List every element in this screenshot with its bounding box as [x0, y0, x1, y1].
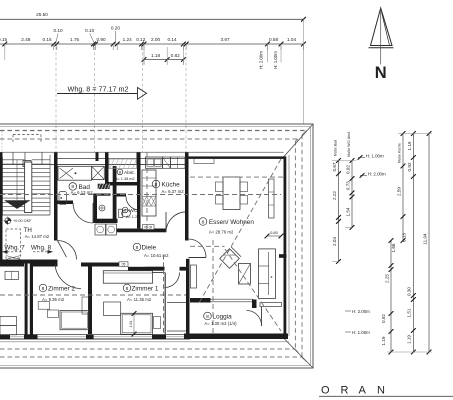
svg-text:0.30: 0.30	[407, 287, 412, 296]
side table	[239, 264, 251, 285]
svg-text:A= 9.35 m2: A= 9.35 m2	[42, 297, 65, 302]
svg-text:0.16: 0.16	[42, 37, 52, 42]
svg-text:8: 8	[155, 182, 158, 188]
svg-text:0.67: 0.67	[332, 162, 337, 171]
Loggia label	[204, 312, 212, 320]
chair left bottom	[216, 196, 224, 205]
wall kitchen/essen vertical	[185, 165, 189, 241]
bad toilet	[59, 192, 67, 205]
wall bar below bath	[93, 194, 110, 196]
svg-text:1.18: 1.18	[151, 53, 161, 58]
svg-text:1.19: 1.19	[406, 335, 411, 344]
dashed 2m height line essen	[190, 176, 283, 178]
svg-text:0.80: 0.80	[270, 230, 279, 235]
top wall small post	[96, 152, 99, 161]
svg-text:0.14: 0.14	[167, 37, 177, 42]
svg-text:1.54: 1.54	[346, 207, 351, 216]
kitchen stove	[163, 157, 171, 168]
Abst label	[117, 169, 123, 175]
svg-text:1.19: 1.19	[381, 336, 386, 345]
wall cabinet	[191, 265, 197, 288]
Abst shelf hatch	[109, 159, 137, 169]
Abst window	[109, 158, 137, 160]
top wall pier	[54, 152, 58, 165]
roof dashed line bottom B	[0, 348, 295, 350]
eaves line right	[288, 155, 290, 336]
kitchen bottom wall	[141, 229, 167, 233]
main top dimension chain	[0, 43, 304, 45]
Zimmer2 left wall	[30, 263, 33, 335]
Zimmer2 shelf	[82, 297, 89, 314]
svg-text:3.97: 3.97	[220, 37, 230, 42]
Diele label	[133, 243, 141, 251]
WC left wall	[93, 196, 97, 223]
svg-text:R: R	[341, 385, 349, 397]
svg-text:25.50: 25.50	[36, 12, 48, 17]
Essen/Wohnen label	[199, 218, 207, 226]
kitchen sink counter	[145, 157, 162, 168]
floor drain symbol	[99, 205, 105, 211]
svg-text:1.24: 1.24	[123, 37, 133, 42]
Zimmer2 label	[39, 284, 47, 292]
Zimmer2 door arc	[55, 263, 81, 289]
svg-text:0.92: 0.92	[381, 314, 386, 323]
dashed vertical zimmer1	[163, 255, 165, 333]
Bad label	[69, 183, 77, 191]
svg-text:A= 11.35 m2: A= 11.35 m2	[127, 297, 152, 302]
svg-text:0.92: 0.92	[346, 165, 351, 174]
corner dashed connectors top-right	[302, 131, 307, 135]
loggia door leaf	[260, 303, 282, 307]
svg-text:A= 14.87 m2: A= 14.87 m2	[25, 234, 50, 239]
loggia window	[211, 298, 254, 300]
roof outline outer	[0, 124, 313, 368]
staircase treads	[3, 159, 25, 161]
TH right wall stub	[54, 260, 58, 267]
Diele bottom wall segment B2	[128, 267, 165, 271]
svg-text:Whg. 8 = 77.17 m2: Whg. 8 = 77.17 m2	[68, 85, 129, 94]
Zimmer1 door leaf	[152, 272, 165, 274]
kitchen left wall	[137, 164, 141, 228]
left edge dotted extension	[1, 131, 3, 152]
shower square	[92, 166, 105, 179]
neighbour box B	[0, 326, 16, 335]
Zimmer1 desk	[104, 302, 121, 315]
bottom wall loggia slab	[184, 334, 288, 340]
svg-text:1.04: 1.04	[287, 37, 297, 42]
kitchen tall unit	[171, 157, 186, 168]
sub chain 1.18 / 0.82	[144, 59, 183, 61]
wall WC/Abst vertical	[113, 166, 117, 219]
svg-text:0.12: 0.12	[136, 37, 146, 42]
svg-text:TH: TH	[24, 227, 32, 234]
top wall pier	[137, 152, 141, 165]
1.64 mini dimension	[133, 314, 135, 335]
WC door arc	[126, 197, 140, 211]
WB marker box	[143, 225, 155, 230]
Zimmer1 door wall piece	[145, 267, 165, 271]
kitchen door leaf	[165, 212, 167, 232]
dryer	[106, 224, 117, 235]
eaves line bottom	[0, 341, 289, 343]
chain total 11.04	[428, 134, 430, 353]
neighbour box A	[0, 316, 16, 325]
svg-text:0.82: 0.82	[171, 53, 181, 58]
svg-text:2.48: 2.48	[21, 37, 31, 42]
svg-text:0.10: 0.10	[53, 28, 63, 33]
Zimmer1 bed	[121, 313, 153, 334]
svg-text:0.10: 0.10	[85, 28, 95, 33]
roof mitre corner top-right	[284, 124, 313, 157]
dishwasher hatch cell	[142, 197, 147, 207]
Zimmer1 label	[123, 284, 131, 292]
Bad window	[58, 158, 106, 160]
niche lines	[167, 302, 186, 304]
bottom wall pier at party wall	[24, 335, 38, 340]
stair side lines	[49, 155, 51, 215]
dashed vertical essen	[212, 240, 214, 333]
bottom wall pier z2/z1	[86, 335, 94, 340]
svg-text:2.22: 2.22	[332, 191, 337, 200]
svg-text:H: 1.00m: H: 1.00m	[273, 51, 278, 69]
Zimmer1 wardrobe	[103, 271, 152, 284]
TH left wall	[0, 152, 3, 263]
dashed diagonal 2	[225, 249, 281, 331]
Zimmer2 left neighbour wall	[25, 263, 28, 335]
svg-text:Zimmer 2: Zimmer 2	[48, 285, 75, 292]
svg-text:Küche: Küche	[162, 181, 181, 188]
loggia door arc	[247, 311, 262, 326]
roof dashed line top B	[0, 138, 298, 140]
svg-text:0.20: 0.20	[111, 26, 121, 31]
Diele-Essen door leaf	[189, 257, 207, 259]
kitchen window band	[141, 158, 186, 160]
kitchen left counter	[142, 170, 156, 216]
wall essen/loggia left vertical	[186, 259, 190, 334]
TV lowboard	[269, 179, 275, 218]
Diele bottom wall segment B	[81, 263, 121, 267]
svg-text:Essen/ Wohnen: Essen/ Wohnen	[209, 219, 254, 226]
svg-text:N: N	[375, 64, 387, 82]
washing machine	[95, 224, 106, 235]
Zimmer2 wall box	[38, 302, 49, 310]
svg-text:1.66: 1.66	[391, 243, 396, 252]
dashed line 1m height horizontal	[0, 194, 281, 196]
svg-text:Abst.: Abst.	[124, 170, 135, 176]
loggia top wall right pier	[252, 300, 257, 309]
chair right bottom	[240, 196, 248, 205]
svg-text:WC: WC	[129, 208, 138, 214]
roof mitre corner bottom-right	[284, 338, 313, 368]
dormer dashed outline	[12, 135, 14, 143]
Essen top wall	[189, 156, 284, 159]
svg-text:A= 1.30 m2 (1/4): A= 1.30 m2 (1/4)	[204, 321, 237, 326]
svg-text:0.15: 0.15	[0, 37, 7, 42]
Diele bottom wall segment C	[180, 267, 190, 271]
svg-text:8: 8	[202, 219, 205, 225]
svg-text:8: 8	[136, 245, 139, 251]
svg-text:1.64: 1.64	[129, 321, 133, 328]
chair right top	[240, 182, 248, 192]
chain Masse Bad	[338, 161, 340, 262]
svg-text:1.19: 1.19	[407, 141, 412, 150]
dashed diagonal 1	[199, 159, 281, 303]
stair centre stringer	[25, 162, 32, 213]
bottom wall pier left	[0, 335, 10, 340]
svg-text:8: 8	[206, 314, 209, 320]
svg-text:2.59: 2.59	[396, 187, 401, 196]
right exterior wall	[284, 156, 287, 338]
neighbour shelf	[5, 271, 18, 279]
svg-text:0.92: 0.92	[407, 162, 412, 171]
loggia top wall left	[190, 298, 211, 303]
chain lower right	[390, 241, 392, 353]
svg-text:2.25: 2.25	[384, 274, 389, 283]
svg-text:6.13: 6.13	[401, 233, 406, 242]
title underline	[319, 395, 453, 397]
svg-text:A= 1.38 m2: A= 1.38 m2	[115, 177, 135, 181]
WC label	[122, 207, 128, 213]
armchair rotated	[220, 247, 241, 268]
lobby bar wall	[93, 219, 117, 223]
Zimmer1 door arc	[165, 273, 180, 288]
WC toilet	[119, 209, 123, 217]
sideboard top	[194, 159, 214, 164]
top wall pier	[105, 152, 109, 165]
couch	[259, 249, 276, 299]
dashed line horizontal bottom rooms	[0, 294, 186, 296]
Zimmer1 right wall thin	[164, 273, 166, 335]
stair landing line	[3, 214, 51, 216]
loggia door leaf open	[261, 307, 263, 326]
top wall TH window band	[0, 163, 54, 165]
Zimmer2 bed	[60, 311, 89, 330]
chain Masse Kueche	[402, 134, 404, 241]
eaves line top	[0, 151, 284, 153]
roof dashed line right A	[301, 135, 303, 358]
Abst bottom wall	[105, 182, 141, 186]
stair direction arrow	[5, 201, 30, 209]
svg-text:A: A	[359, 385, 367, 397]
svg-text:2.00: 2.00	[151, 37, 161, 42]
svg-text:Maße WC/ Abst.: Maße WC/ Abst.	[347, 131, 351, 157]
Diele-Essen door arc	[189, 239, 206, 258]
svg-text:8: 8	[42, 286, 45, 292]
svg-text:O: O	[321, 385, 330, 397]
WC top wall	[117, 194, 127, 197]
WC bottom wall	[117, 229, 141, 233]
wall stub right	[279, 254, 287, 258]
kitchen door arc	[166, 212, 187, 233]
svg-text:H: 2.00m: H: 2.00m	[352, 309, 370, 314]
bath shelf hatched	[98, 184, 110, 189]
dimension line 25.50	[0, 18, 304, 20]
level marker +0.00 OKF	[5, 218, 11, 224]
svg-text:05: 05	[122, 263, 126, 267]
svg-text:Maße Bad: Maße Bad	[334, 140, 338, 156]
svg-text:A= 6.37 m2: A= 6.37 m2	[162, 189, 185, 194]
wall Zimmer2/Zimmer1	[88, 267, 92, 335]
svg-text:A= 28.76 m2: A= 28.76 m2	[209, 230, 234, 235]
svg-text:H: 1.00m: H: 1.00m	[366, 154, 384, 159]
svg-text:0.90: 0.90	[96, 37, 106, 42]
0.80 niche dimension	[267, 235, 281, 237]
shaft dashed rectangle	[6, 229, 21, 258]
Zimmer1 nightstand	[154, 317, 161, 329]
svg-text:H: 1.00m: H: 1.00m	[352, 330, 370, 335]
entry door arc	[58, 241, 77, 260]
svg-text:+0.00 OKF: +0.00 OKF	[13, 219, 32, 223]
svg-text:0.68: 0.68	[269, 37, 279, 42]
roof dashed line top A	[0, 130, 307, 132]
svg-text:1.76: 1.76	[70, 37, 80, 42]
svg-text:Loggia: Loggia	[213, 313, 233, 320]
wall Bad right upper	[105, 164, 109, 182]
05 marker box	[119, 262, 128, 267]
svg-text:8: 8	[126, 286, 129, 292]
svg-text:A= 10.61 m2: A= 10.61 m2	[144, 253, 169, 258]
chain mid right	[412, 134, 414, 353]
dashed vertical kitchen	[146, 152, 148, 231]
roof dashed line right B	[294, 141, 296, 350]
roof outline inner thin	[0, 127, 310, 366]
Bad bottom wall	[58, 201, 74, 205]
bottom exterior wall window band	[0, 334, 288, 336]
Kueche label	[152, 180, 160, 188]
chair left top	[216, 182, 224, 192]
chain Masse WC/Abst	[351, 161, 353, 228]
north arrow	[371, 8, 393, 46]
svg-text:N: N	[377, 385, 385, 397]
TH right wall upper	[54, 164, 58, 241]
svg-text:0.73: 0.73	[346, 181, 351, 190]
svg-text:Maße Küche: Maße Küche	[397, 143, 401, 163]
svg-text:05 05: 05 05	[144, 226, 152, 230]
dining table	[223, 177, 240, 210]
top wall pier kitchen/essen	[185, 152, 189, 165]
Zimmer2 nightstand	[48, 310, 59, 318]
bathtub	[58, 166, 92, 180]
roof dashed line bottom A	[0, 356, 302, 358]
chain connector lines	[398, 133, 432, 135]
neighbour top wall	[0, 263, 24, 267]
svg-text:1.51: 1.51	[407, 308, 412, 317]
TH bottom wall	[0, 260, 58, 264]
svg-text:Diele: Diele	[142, 244, 157, 251]
svg-text:A= 1.26: A= 1.26	[126, 215, 139, 219]
svg-text:H: 2.00m: H: 2.00m	[368, 172, 386, 177]
svg-text:H: 2.00m: H: 2.00m	[259, 51, 264, 69]
svg-text:Zimmer 1: Zimmer 1	[132, 285, 159, 292]
stair walk line	[16, 160, 18, 200]
bottom wall pier z1 right	[152, 335, 166, 340]
svg-text:2.04: 2.04	[332, 237, 337, 246]
Bad door arc	[73, 203, 93, 223]
Diele bottom wall segment A	[33, 263, 55, 267]
dashed connector essen	[190, 245, 225, 247]
svg-text:11.04: 11.04	[422, 233, 427, 245]
